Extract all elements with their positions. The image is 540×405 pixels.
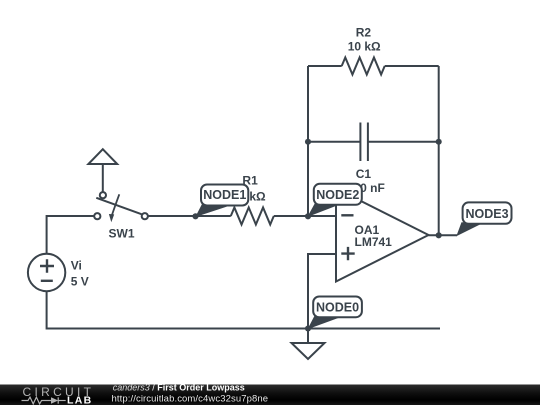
footer bar [0, 385, 540, 405]
node NODE1 callout [195, 185, 248, 218]
svg-text:10 kΩ: 10 kΩ [348, 40, 381, 54]
svg-text:NODE3: NODE3 [465, 207, 508, 221]
switch SW1 top pivot circle [100, 192, 106, 198]
switch SW1 toggle arrow [112, 194, 120, 216]
svg-text:NODE0: NODE0 [316, 300, 359, 314]
svg-text:LM741: LM741 [355, 235, 393, 249]
node NODE3 callout [456, 202, 511, 236]
node NODE0 callout [308, 297, 362, 330]
wire switch right terminal to node1 junction to resistor R1 [148, 215, 231, 217]
voltage source plus sign [40, 259, 54, 272]
capacitor C1 right plate [367, 123, 369, 162]
wire right feedback vertical from R2 down to output [438, 66, 440, 235]
switch SW1 right terminal circle [142, 213, 148, 219]
svg-text:5 V: 5 V [71, 275, 89, 289]
op-amp OA1 triangle [336, 189, 429, 282]
wire left feedback vertical node2 up to R2 row [307, 66, 309, 216]
ground symbol [292, 343, 325, 359]
wire resistor R1 to node2 junction to op-amp minus input [274, 215, 336, 217]
junction dot output [436, 232, 442, 238]
circuitlab logo squiggle resistor and diode [22, 397, 66, 404]
junction dot node1 [192, 213, 198, 219]
junction dot C1 right [436, 139, 442, 145]
svg-text:LAB: LAB [67, 395, 92, 405]
svg-text:http://circuitlab.com/c4wc32su: http://circuitlab.com/c4wc32su7p8ne [112, 393, 269, 404]
junction dot C1 left [305, 139, 311, 145]
svg-text:NODE1: NODE1 [203, 188, 246, 202]
switch SW1 left terminal circle [94, 213, 100, 219]
svg-text:Vi: Vi [71, 259, 82, 273]
resistor R1 body [231, 208, 274, 225]
wire R2 top left lead [308, 65, 342, 67]
node NODE2 callout [307, 184, 362, 217]
op-amp minus sign [341, 214, 353, 216]
wire from source top to switch left terminal [47, 216, 94, 254]
svg-text:canders3 / First Order Lowpass: canders3 / First Order Lowpass [113, 383, 245, 393]
wire op-amp output to NODE3 callout [429, 234, 458, 236]
wire R2 top right lead [385, 65, 439, 67]
svg-text:R2: R2 [356, 26, 372, 40]
voltage source minus sign [41, 280, 53, 282]
wire ground stub [307, 329, 309, 344]
capacitor C1 left plate [359, 123, 361, 162]
wire C1 left lead [308, 141, 360, 143]
wire C1 right lead [368, 141, 438, 143]
svg-text:SW1: SW1 [108, 227, 134, 241]
switch SW1 arm [96, 198, 141, 214]
wire op-amp plus input [308, 254, 336, 329]
wire bottom rail [47, 291, 440, 328]
junction dot node0 [305, 325, 311, 331]
switch SW1 top terminal triangle [88, 149, 117, 164]
voltage source Vi circle [28, 254, 65, 291]
resistor R2 body [342, 58, 385, 75]
svg-text:C1: C1 [356, 167, 372, 181]
switch SW1 top terminal wire [102, 164, 104, 192]
op-amp plus sign [341, 247, 354, 260]
svg-text:NODE2: NODE2 [316, 188, 359, 202]
junction dot node2 [305, 213, 311, 219]
